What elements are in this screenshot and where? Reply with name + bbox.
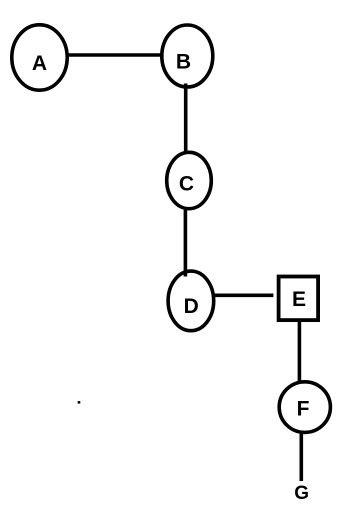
node E — [279, 277, 319, 321]
wire E-F — [298, 322, 302, 382]
node B — [162, 25, 213, 87]
wire D-E — [213, 293, 274, 297]
node D — [168, 271, 214, 331]
svg-text:G: G — [294, 483, 309, 504]
svg-text:C: C — [179, 172, 194, 195]
wire A-B — [67, 53, 162, 57]
node F — [279, 382, 330, 433]
node A — [12, 25, 67, 90]
node C — [167, 152, 212, 208]
wire F-G — [299, 433, 303, 481]
stray dot — [78, 401, 81, 404]
svg-text:F: F — [297, 397, 310, 420]
wire B-C — [184, 84, 188, 153]
svg-text:D: D — [184, 295, 199, 318]
svg-text:E: E — [292, 288, 306, 311]
wire C-D — [184, 210, 188, 277]
svg-text:A: A — [32, 52, 47, 75]
svg-text:B: B — [176, 51, 191, 74]
